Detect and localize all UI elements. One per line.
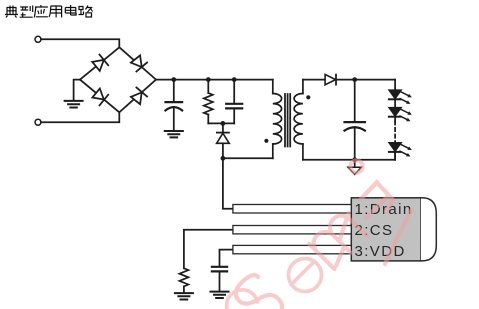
pin 2 lead bbox=[233, 226, 351, 234]
char 型 bbox=[20, 6, 33, 18]
transformer T1 secondary winding bbox=[294, 80, 303, 160]
title: 典型应用电路 (drawn strokes) bbox=[5, 5, 93, 18]
transformer T1 primary winding bbox=[273, 80, 282, 159]
watermark i stem bbox=[366, 196, 388, 218]
ground G1 bbox=[65, 101, 83, 108]
node dot drain bbox=[221, 156, 226, 161]
wire VDD to pin3 bbox=[220, 250, 233, 267]
bridge diode D1 (left-top arm) bbox=[92, 55, 108, 71]
char 应 bbox=[34, 5, 48, 18]
bridge diode D3 (left-bottom arm) bbox=[92, 88, 108, 105]
ground G3 bbox=[175, 293, 193, 299]
wire secondary top to diode bbox=[303, 79, 325, 81]
wire drain to primary bottom bbox=[223, 157, 273, 159]
wire RC bottom connector bbox=[208, 122, 234, 124]
wire CS to pin2 bbox=[184, 230, 233, 269]
resistor R2 (CS) bbox=[179, 268, 188, 292]
node dot C1 bbox=[171, 77, 176, 82]
transformer core bbox=[285, 94, 290, 147]
AC terminal top bbox=[35, 36, 41, 42]
pin 1 lead bbox=[233, 205, 351, 214]
LED3 bbox=[389, 143, 412, 160]
watermark stroke bbox=[385, 211, 411, 265]
AC terminal bottom bbox=[35, 119, 41, 125]
LED string wire top bbox=[394, 80, 396, 91]
diode D5 (clamp, cathode up) bbox=[217, 123, 230, 158]
bridge diode D4 (bottom-right arm) bbox=[131, 87, 147, 104]
watermark (translucent overlay) bbox=[227, 160, 412, 309]
capacitor C2 (snubber) bbox=[226, 80, 242, 124]
node dot RC/diode bbox=[221, 121, 226, 126]
svg-text:1:Drain: 1:Drain bbox=[355, 201, 413, 218]
dashed wire (more LEDs) bbox=[394, 121, 396, 143]
bottom output rail bbox=[303, 159, 395, 161]
char 典 bbox=[5, 6, 18, 18]
capacitor C4 (output, polarized) bbox=[345, 80, 365, 160]
wire top output rail bbox=[336, 79, 395, 81]
watermark partial letter (bottom edge) bbox=[227, 290, 258, 309]
watermark ring bbox=[350, 160, 362, 172]
watermark letter m bbox=[309, 211, 367, 269]
char 用 bbox=[49, 6, 62, 18]
LED string wire bottom bbox=[394, 152, 396, 160]
node dot C2 bbox=[232, 77, 237, 82]
svg-text:3:VDD: 3:VDD bbox=[355, 243, 406, 260]
node dot C4 bottom bbox=[352, 157, 357, 162]
main rail bbox=[156, 79, 273, 81]
pin labels bbox=[355, 201, 413, 260]
ground stub from bridge left vertex bbox=[74, 80, 80, 101]
diode D6 (output rectifier) bbox=[325, 74, 336, 84]
primary phase dot bbox=[264, 139, 268, 143]
LED1 bbox=[389, 90, 412, 107]
watermark letter e bbox=[282, 252, 329, 299]
char 路 bbox=[79, 6, 93, 18]
ground G4 bbox=[211, 292, 229, 298]
bridge diode D2 (top-right arm) bbox=[131, 55, 147, 71]
wire top AC bbox=[41, 39, 119, 47]
watermark chevron bbox=[361, 182, 393, 212]
capacitor C3 (VDD) bbox=[212, 267, 227, 291]
char 电 bbox=[65, 5, 76, 15]
bridge rectifier diamond bbox=[80, 47, 156, 112]
LED2 bbox=[389, 108, 412, 122]
watermark letter S bbox=[230, 271, 287, 309]
node dot R1 bbox=[206, 77, 211, 82]
floating ground symbol (open triangle) bbox=[348, 160, 361, 175]
watermark strokes over leads bbox=[336, 213, 349, 266]
wire bottom AC bbox=[41, 112, 119, 122]
resistor R1 (snubber) bbox=[204, 80, 213, 124]
secondary phase dot bbox=[306, 95, 310, 99]
pin 3 lead bbox=[233, 245, 351, 253]
capacitor C1 (input filter, polarized) bbox=[166, 80, 183, 131]
ground G2 bbox=[165, 131, 183, 137]
wire drain down to pin1 bbox=[223, 158, 233, 209]
node dot C4 top bbox=[352, 77, 357, 82]
IC U1 body bbox=[351, 198, 436, 261]
